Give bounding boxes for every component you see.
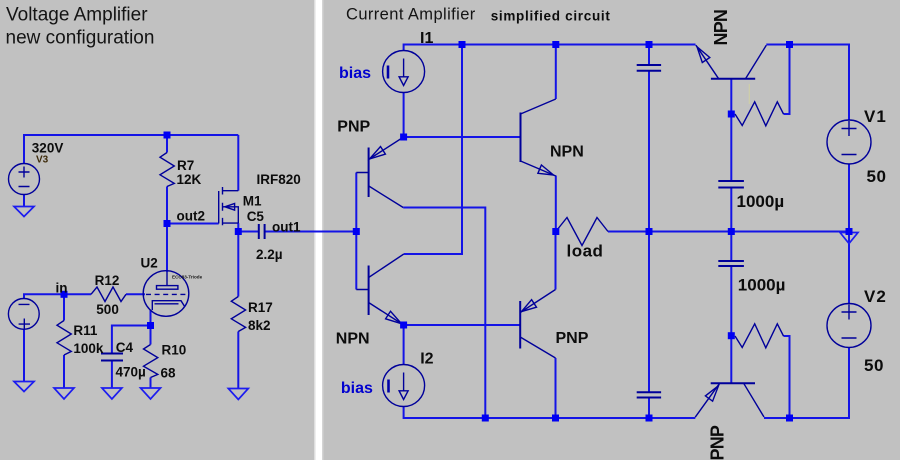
svg-text:I2: I2 [420, 351, 433, 368]
wire out1 node down to R17 [237, 232, 239, 297]
wire anode from out2 down into tube [166, 224, 168, 273]
svg-text:new configuration: new configuration [6, 28, 155, 49]
wire boot cap column top [648, 45, 650, 66]
wire Q4 emitter up to load node [555, 232, 557, 290]
junction out2 [164, 220, 171, 227]
wire out2 to M1 gate [167, 223, 219, 225]
svg-text:50: 50 [864, 356, 884, 375]
wire top rail left segment [404, 45, 696, 51]
wire M1 source down to out1 node [237, 223, 239, 231]
ground input source [14, 382, 34, 392]
junction cathode node [147, 322, 154, 329]
svg-text:Voltage Amplifier: Voltage Amplifier [6, 5, 148, 26]
wire R11 top [63, 294, 65, 320]
wire C5 to right panel input node [265, 231, 357, 233]
artifact pale line [748, 84, 750, 104]
wire in node to R12 [64, 293, 91, 295]
svg-text:1000µ: 1000µ [737, 192, 785, 211]
wire Q1 collector to bottom rail [403, 208, 485, 419]
svg-text:out2: out2 [177, 209, 206, 224]
ground R17 [228, 389, 248, 400]
svg-text:I1: I1 [420, 30, 433, 47]
svg-text:bias: bias [341, 380, 373, 397]
svg-text:470µ: 470µ [116, 365, 146, 380]
wire C4 bottom to ground [111, 361, 113, 389]
input voltage source [8, 299, 39, 330]
wire cathode node to C4 [112, 326, 151, 354]
svg-text:I: I [386, 377, 391, 397]
wire output row to lower 1000u cap [730, 232, 732, 262]
wire I1 bottom to node A [403, 93, 405, 137]
wire top rail left panel [24, 135, 238, 164]
svg-text:2.2µ: 2.2µ [256, 247, 283, 262]
svg-text:Current Amplifier: Current Amplifier [346, 6, 476, 24]
voltage source V2 [827, 304, 871, 348]
svg-text:8k2: 8k2 [248, 318, 271, 333]
svg-text:320V: 320V [32, 141, 64, 156]
voltage source V1 [827, 120, 871, 164]
junction output row x849 [846, 228, 853, 235]
svg-text:V2: V2 [864, 287, 887, 306]
ground R11 [54, 388, 74, 399]
resistor load [556, 218, 608, 246]
junction bottom rail x789 [786, 415, 793, 422]
svg-text:R11: R11 [73, 323, 98, 338]
wire bottom bias resistor right end [784, 336, 790, 418]
junction out1 [235, 228, 242, 235]
resistor R7 [160, 153, 174, 187]
resistor top bias [735, 102, 784, 126]
svg-text:I: I [386, 63, 391, 83]
junction Q5 base node [728, 111, 735, 118]
triode U2 [143, 271, 189, 317]
junction Q2 emitter row [400, 322, 407, 329]
wire V2 top [848, 232, 850, 305]
wire top rail right segment [766, 45, 849, 121]
junction bottom rail x649 [646, 415, 653, 422]
wire R12 to tube grid [126, 293, 145, 295]
resistor R12 [91, 287, 126, 302]
resistor bottom bias [735, 324, 784, 348]
svg-text:U2: U2 [141, 256, 158, 271]
svg-text:load: load [567, 242, 604, 261]
svg-text:50: 50 [867, 167, 887, 186]
transistor Q6 pnp output [711, 382, 755, 384]
wire top bias resistor right end [784, 45, 790, 115]
wire Q2 emitter row to Q4 base [404, 324, 521, 326]
wire Q5 base [730, 79, 732, 114]
svg-text:PNP: PNP [337, 119, 370, 136]
current source I1 [383, 51, 425, 93]
wire R10 bottom to ground [150, 378, 152, 389]
svg-text:500: 500 [96, 302, 119, 317]
wire tube cathode down to node [150, 310, 152, 326]
junction top rail x462 [459, 41, 466, 48]
panel divider [316, 0, 323, 460]
transistor Q2 npn [368, 266, 370, 316]
wire R7 bottom to out2 [166, 187, 168, 224]
svg-text:1000µ: 1000µ [738, 276, 786, 295]
junction Q6 base node [728, 332, 735, 339]
transistor Q1 pnp [368, 148, 370, 198]
junction top rail x789 [786, 41, 793, 48]
capacitor C5 [259, 224, 265, 239]
wire load to ground column [608, 231, 849, 233]
svg-text:out1: out1 [272, 220, 301, 235]
svg-text:bias: bias [339, 65, 371, 82]
svg-text:NPN: NPN [336, 331, 370, 348]
svg-text:PNP: PNP [556, 330, 589, 347]
ground R10 [141, 388, 161, 399]
wire Q6 base [730, 336, 732, 383]
wire input column bases [355, 173, 357, 290]
wire input source top to in node [24, 294, 64, 298]
wire Q3 emitter down to load [555, 176, 557, 232]
junction out2 top rail [164, 132, 171, 139]
svg-text:68: 68 [161, 366, 177, 381]
svg-text:simplified circuit: simplified circuit [491, 9, 611, 24]
svg-text:R12: R12 [95, 273, 120, 288]
svg-text:IRF820: IRF820 [257, 172, 301, 187]
junction top rail x649 [646, 41, 653, 48]
wire input source to ground [23, 329, 25, 381]
wire V1 bottom to output row [848, 164, 850, 232]
svg-text:V1: V1 [864, 107, 887, 126]
junction output row x731 [728, 228, 735, 235]
transistor Q5 npn output [711, 78, 755, 80]
wire Q3 collector up to rail [555, 45, 557, 100]
wire M1 drain up [237, 135, 239, 191]
svg-text:100k: 100k [73, 341, 104, 356]
svg-text:ECC83-Triode: ECC83-Triode [172, 274, 203, 279]
transistor Q3 npn [520, 113, 522, 163]
svg-text:in: in [56, 281, 68, 296]
junction top rail x556 [552, 41, 559, 48]
wire Q2 collector to top rail [404, 45, 462, 255]
svg-text:C4: C4 [116, 340, 134, 355]
capacitor 1000u bottom [718, 261, 744, 266]
svg-text:R10: R10 [162, 343, 187, 358]
svg-text:NPN: NPN [550, 144, 584, 161]
svg-text:PNP: PNP [708, 425, 728, 460]
junction bottom rail x485 [482, 415, 489, 422]
svg-text:C5: C5 [247, 209, 265, 224]
junction node A [400, 134, 407, 141]
svg-text:NPN: NPN [711, 10, 731, 46]
ground C4 [102, 388, 122, 399]
wire node A to Q3 base [404, 136, 521, 138]
wire Q5 base node to 1000u cap [730, 114, 732, 181]
transistor M1 nmos [219, 187, 239, 225]
resistor R10 [144, 345, 158, 378]
svg-text:R7: R7 [177, 158, 194, 173]
capacitor bottom boot [637, 392, 661, 397]
wire out1 node to C5 [238, 231, 258, 233]
svg-text:R17: R17 [248, 300, 273, 315]
wire R7 top [166, 135, 168, 153]
wire Q4 collector down to rail [555, 358, 557, 418]
current source I2 [383, 365, 425, 407]
capacitor top boot [637, 65, 661, 71]
junction load left [552, 228, 559, 235]
junction in [61, 291, 68, 298]
capacitor 1000u top [718, 181, 744, 188]
ground output node [840, 233, 858, 244]
svg-text:V3: V3 [36, 155, 49, 166]
transistor Q4 pnp [519, 301, 521, 349]
ground V3 [14, 207, 34, 217]
junction bottom rail x556 [552, 415, 559, 422]
capacitor C4 [101, 354, 123, 361]
wire I2 top [403, 325, 405, 365]
svg-text:M1: M1 [243, 194, 262, 209]
resistor R17 [231, 297, 245, 332]
voltage source V3 [9, 164, 40, 195]
wire R11 bottom to ground [63, 355, 65, 388]
svg-text:12K: 12K [177, 172, 202, 187]
junction output row x649 [646, 228, 653, 235]
wire bottom rail right segment [764, 347, 849, 418]
wire I2 bottom to bottom rail [404, 406, 696, 418]
wire node to R10 [150, 326, 152, 345]
wire R17 to ground [237, 332, 239, 389]
junction input bases [353, 228, 360, 235]
wire V3 to ground [23, 195, 25, 208]
resistor R11 [57, 321, 71, 356]
